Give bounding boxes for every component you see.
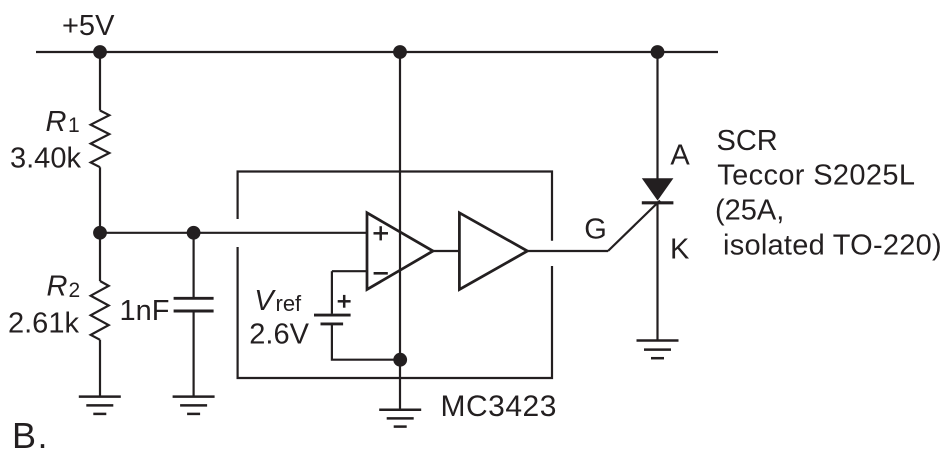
svg-text:(25A,: (25A, xyxy=(715,194,784,226)
wire node horizontal to comparator + input xyxy=(100,232,367,234)
svg-text:R: R xyxy=(46,106,67,138)
wire node to capacitor top plate xyxy=(193,233,195,297)
svg-text:+5V: +5V xyxy=(62,10,115,42)
svg-text:R: R xyxy=(47,270,68,302)
ground C1 xyxy=(173,397,215,414)
comparator + input mark xyxy=(374,226,389,240)
junction dot Vref return xyxy=(393,353,407,367)
svg-text:Teccor S2025L: Teccor S2025L xyxy=(717,160,915,192)
svg-text:V: V xyxy=(254,285,276,317)
wire - input horizontal xyxy=(332,270,367,272)
junction dot rail/R1 xyxy=(93,45,107,59)
wire - input down to battery xyxy=(331,271,333,314)
resistor R1 xyxy=(91,111,110,168)
wire +5V rail xyxy=(36,51,718,53)
svg-text:MC3423: MC3423 xyxy=(441,390,557,423)
svg-text:B.: B. xyxy=(12,415,49,456)
wire SCR cathode to ground xyxy=(656,203,658,341)
wire R2 bottom to ground xyxy=(99,340,101,397)
svg-text:2: 2 xyxy=(69,279,81,302)
wire comparator output to buffer xyxy=(433,250,459,252)
svg-text:K: K xyxy=(670,233,690,265)
SCR cathode bar xyxy=(642,201,674,204)
capacitor C1 1nF xyxy=(174,298,214,311)
wire battery return xyxy=(332,324,400,360)
junction dot node/C1 xyxy=(187,226,201,240)
SCR thyristor xyxy=(642,178,674,200)
ground MC3423 xyxy=(379,410,421,427)
wire VCC vertical rail-to-ground xyxy=(399,52,401,410)
comparator - input mark xyxy=(374,272,388,275)
svg-text:isolated TO-220): isolated TO-220) xyxy=(723,230,942,262)
junction dot rail/SCR anode xyxy=(651,45,665,59)
wire R1 bottom to node xyxy=(99,167,101,233)
op-amp comparator U1 xyxy=(367,213,433,290)
svg-text:3.40k: 3.40k xyxy=(10,143,81,175)
wire rail to R1 top xyxy=(99,52,101,111)
IC box MC3423 xyxy=(238,172,552,379)
resistor R2 xyxy=(91,281,109,340)
junction dot rail/VCC xyxy=(393,45,407,59)
svg-text:1nF: 1nF xyxy=(120,295,170,327)
ground R2 xyxy=(79,397,121,414)
wire SCR anode xyxy=(656,52,658,179)
svg-text:SCR: SCR xyxy=(717,125,778,157)
junction dot node/R2 xyxy=(93,226,107,240)
svg-text:2.61k: 2.61k xyxy=(8,307,79,339)
wire gate diagonal xyxy=(608,201,660,252)
wire node to R2 top xyxy=(99,233,101,281)
ground SCR xyxy=(637,341,679,359)
battery Vref xyxy=(314,315,351,324)
battery + mark xyxy=(338,295,351,308)
wire buffer output G xyxy=(527,250,608,252)
svg-text:ref: ref xyxy=(276,291,303,316)
svg-text:A: A xyxy=(670,140,690,172)
svg-text:G: G xyxy=(584,213,607,245)
svg-text:2.6V: 2.6V xyxy=(249,319,309,351)
buffer amplifier xyxy=(459,213,527,290)
svg-text:1: 1 xyxy=(68,114,80,137)
wire capacitor to ground xyxy=(193,312,195,396)
